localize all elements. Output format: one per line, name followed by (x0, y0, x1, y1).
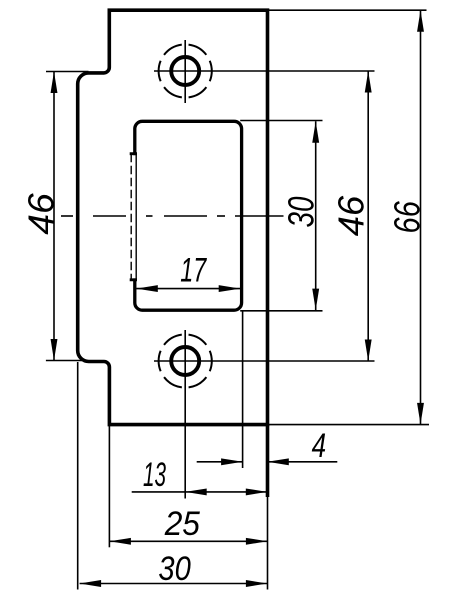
svg-text:17: 17 (180, 252, 207, 290)
svg-text:13: 13 (143, 456, 166, 494)
svg-text:30: 30 (158, 550, 190, 588)
svg-text:66: 66 (386, 200, 427, 233)
svg-text:46: 46 (21, 192, 62, 235)
svg-text:4: 4 (312, 427, 327, 465)
svg-text:30: 30 (281, 197, 322, 228)
svg-text:46: 46 (331, 195, 372, 236)
svg-text:25: 25 (164, 505, 200, 543)
